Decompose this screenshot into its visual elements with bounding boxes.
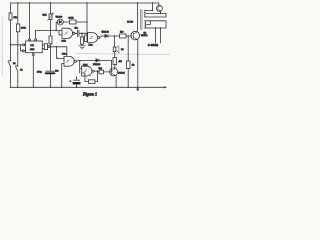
resistor R2	[17, 24, 20, 32]
svg-text:BD131: BD131	[141, 35, 148, 37]
gate3 hysteresis mark	[66, 60, 69, 62]
wire bottom 0V rail	[10, 86, 166, 88]
svg-text:S2: S2	[20, 70, 23, 72]
left pin wire from R1 column	[11, 44, 23, 46]
junction emitter tap	[160, 13, 161, 14]
speaker column wire	[114, 36, 116, 47]
terminal wire 2	[159, 28, 161, 43]
RV1 arrow	[48, 13, 54, 21]
ground symbol	[79, 46, 86, 49]
diode D2	[96, 59, 99, 63]
wire buffer out	[49, 47, 66, 57]
svg-text:BC184: BC184	[118, 73, 125, 75]
capacitor C2 plates	[77, 30, 79, 36]
gate2 input plate box	[85, 35, 87, 42]
svg-text:10n: 10n	[75, 28, 79, 30]
wire R9 to Q2 base	[104, 71, 111, 73]
capacitor C5 plate top	[46, 70, 54, 72]
Q4 emitter wire	[160, 11, 162, 14]
battery B1 plates	[74, 79, 80, 81]
nand gate IC1b body	[62, 28, 73, 38]
junction top rail pin	[29, 2, 30, 3]
battery B1 wire	[76, 77, 78, 88]
nand gate IC1d body	[82, 66, 92, 76]
junction bottom rail R7	[128, 87, 129, 88]
junction tap A	[152, 10, 153, 11]
junction bottom rail pin	[33, 87, 34, 88]
svg-text:1k0: 1k0	[120, 31, 124, 33]
resistor R5	[120, 34, 127, 38]
bottom pin bubble	[32, 54, 34, 56]
gate3 lower input wire	[62, 64, 64, 88]
resistor R2 column wire	[17, 3, 19, 87]
junction LED return	[86, 21, 87, 22]
nand gate IC1c body	[88, 33, 98, 43]
gate4 feed wire	[80, 61, 82, 73]
diode D1	[105, 34, 108, 38]
gate2 hysteresis mark	[90, 37, 93, 39]
transformer T1 primary wire	[137, 3, 139, 31]
left pin stubs	[24, 45, 25, 51]
gate4 bubble	[92, 70, 94, 72]
buffer gate box	[44, 44, 47, 50]
junction bottom rail S1	[17, 87, 18, 88]
svg-text:S1: S1	[13, 63, 16, 65]
LED D3	[57, 19, 63, 25]
IC pin wire from rail	[29, 3, 31, 39]
IC1 package box	[26, 41, 43, 53]
switch S2	[15, 66, 17, 72]
T1 secondary upper winding	[144, 11, 146, 18]
junctions terminals	[155, 27, 156, 28]
svg-text:1k: 1k	[132, 65, 135, 67]
wire top supply rail	[11, 2, 159, 4]
wire R6 to Q2 collector	[114, 65, 116, 69]
left pin bubble 2	[22, 50, 24, 52]
junction bottom rail Q2	[115, 87, 116, 88]
wire gate4 out to R9	[97, 71, 99, 73]
svg-text:3-300Ω: 3-300Ω	[148, 44, 158, 47]
terminal wire 1	[154, 28, 156, 43]
R7 column wire	[127, 36, 129, 87]
svg-text:TIL209: TIL209	[56, 16, 63, 18]
Q2 emitter wire	[115, 76, 117, 87]
resistor R1 column wire	[10, 3, 12, 87]
pin stub	[35, 40, 37, 42]
junction top rail T1	[137, 2, 138, 3]
resistor R7	[126, 61, 130, 69]
capacitor C2 wires	[75, 32, 87, 34]
secondary centre tap wire	[146, 13, 166, 15]
gate2 bubble	[98, 37, 100, 39]
corner loop right	[146, 14, 166, 18]
junction gate wire tap	[50, 30, 51, 31]
junction top rail R2	[17, 2, 18, 3]
R4 stubs	[81, 33, 83, 45]
gate1 bubble	[73, 32, 75, 34]
RV1 column wire	[50, 3, 52, 87]
wire R5 to Q3 base	[126, 35, 131, 37]
svg-text:IC1c: IC1c	[89, 45, 93, 47]
T1 core	[141, 10, 142, 30]
pin bubble 8	[35, 39, 37, 41]
T1 primary winding	[136, 10, 139, 19]
junction R1 column	[10, 44, 11, 45]
pin bubble 14	[29, 39, 31, 41]
buffer bubble	[48, 46, 50, 48]
junction C2 out	[81, 33, 82, 34]
resistor R4	[81, 37, 84, 44]
junction bottom rail Q3	[137, 87, 138, 88]
secondary tap wire A	[146, 10, 152, 12]
svg-text:10k: 10k	[99, 68, 103, 70]
junction bottom rail B1	[76, 87, 77, 88]
nand gate IC1a body	[64, 56, 74, 66]
gate3 bubble	[74, 60, 76, 62]
junction gate4 feed	[79, 60, 80, 61]
wire IC to gate1	[36, 31, 63, 36]
gate1 hysteresis mark	[65, 32, 68, 34]
resistor R1	[9, 13, 12, 20]
junction bottom rail	[61, 87, 62, 88]
junction buffer wire	[56, 46, 57, 47]
page left border line	[1, 17, 3, 76]
left pin bubble	[23, 44, 25, 46]
Q2 collector wire	[114, 68, 116, 70]
svg-text:4k7: 4k7	[119, 61, 123, 63]
junction IC pin wire	[50, 46, 51, 47]
svg-text:1N4148: 1N4148	[93, 64, 101, 66]
svg-text:1k0: 1k0	[55, 71, 59, 73]
resistor R6	[113, 58, 117, 65]
paper crease line	[76, 54, 170, 55]
capacitor C5 plate bottom	[46, 72, 55, 74]
resistor R3	[49, 36, 52, 44]
junction gate4 out	[97, 70, 98, 71]
junction rail tap	[152, 2, 153, 3]
left pin drop wire	[21, 45, 23, 51]
wire IC out to gate3 input	[57, 47, 65, 59]
wire gate2 to diode	[100, 36, 105, 38]
transistor Q4	[156, 5, 162, 11]
bottom rail end arrow	[164, 87, 166, 89]
svg-text:LS: LS	[121, 49, 124, 51]
svg-text:100k: 100k	[21, 28, 26, 30]
svg-text:LT700: LT700	[127, 22, 134, 24]
LED wire	[56, 22, 87, 31]
transistor Q3	[131, 31, 140, 40]
resistor R10	[70, 20, 77, 24]
junction bottom rail C5	[50, 87, 51, 88]
right pin stubs	[42, 45, 44, 49]
gate3 output wire	[76, 59, 95, 62]
junction R7 tap	[128, 35, 129, 36]
svg-text:IC1: IC1	[31, 45, 35, 47]
svg-text:RV1: RV1	[43, 15, 48, 17]
loudspeaker LS1	[113, 47, 116, 52]
svg-text:4011: 4011	[30, 49, 35, 51]
wire D2 to base node	[99, 60, 112, 72]
bottom pin wire to C5	[32, 53, 34, 88]
feedback resistor R8	[89, 80, 96, 84]
junction speaker tap	[114, 35, 115, 36]
junction base node	[111, 71, 112, 72]
pin stub	[29, 40, 31, 42]
supply column wire to gate input	[86, 3, 88, 35]
resistor R9	[99, 70, 104, 74]
junction top rail RV1	[50, 2, 51, 3]
T1 secondary lower winding	[144, 21, 146, 28]
secondary lower tap wires	[146, 21, 166, 28]
preset RV1	[49, 14, 52, 20]
svg-text:+: +	[70, 81, 72, 83]
svg-text:Figure 1: Figure 1	[82, 92, 97, 97]
svg-text:1N4148: 1N4148	[102, 32, 110, 34]
gate4 feedback loop	[82, 71, 98, 82]
Q4 collector from rail	[157, 3, 160, 6]
svg-text:100µ: 100µ	[37, 72, 42, 74]
svg-text:IC1b: IC1b	[62, 41, 67, 43]
rail drop to tap A	[151, 3, 153, 11]
svg-text:10k: 10k	[14, 17, 18, 19]
wire LS to R6	[114, 52, 116, 58]
junction top rail col	[86, 2, 87, 3]
transistor Q2	[110, 68, 118, 76]
switch S1	[8, 61, 11, 67]
pin wire node B	[35, 31, 37, 39]
wire diode to R5	[108, 35, 120, 37]
gate4 hysteresis mark	[84, 70, 87, 72]
Q3 emitter wire with ground arrow	[137, 40, 139, 91]
svg-text:390R: 390R	[69, 17, 74, 19]
junction LED tap	[56, 30, 57, 31]
